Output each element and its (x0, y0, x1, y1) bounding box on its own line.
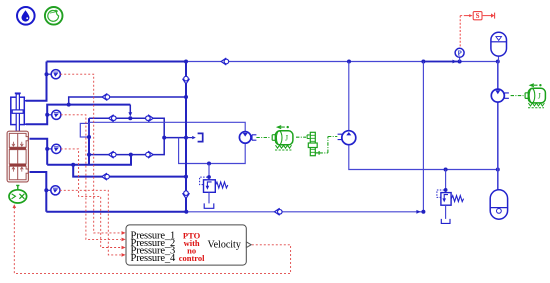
wire bottom line thin segment (186, 62, 423, 212)
node volume junction (87, 135, 91, 139)
node top bus junction x186 (184, 60, 188, 64)
accumulator bottom right (490, 190, 507, 219)
relief valve 1 (200, 164, 228, 209)
gear element (296, 132, 337, 155)
check valve C1 (109, 151, 117, 158)
svg-text:P: P (457, 49, 462, 57)
cylinder (11, 93, 27, 131)
directional valve block (7, 131, 28, 182)
node relief valve 2 tap (444, 168, 448, 172)
wire sensor2 stub (47, 114, 52, 116)
wire bottom line bold segment (46, 211, 186, 213)
node sensor4 junction (44, 188, 48, 192)
node top bus junction x423 (421, 60, 425, 64)
red input arrow 2 (122, 238, 126, 242)
accumulator top right (491, 32, 507, 61)
check valve on top bus (221, 58, 229, 65)
red input arrow 3 (122, 246, 126, 250)
inertia J2 (511, 84, 546, 108)
node top bus junction P sensor (458, 60, 462, 64)
check valve bottom line (275, 208, 283, 215)
svg-text:control: control (179, 253, 205, 263)
pump 3 (491, 89, 509, 102)
relief valve 2 (437, 170, 464, 224)
wire pump1 loop bottom (179, 138, 246, 164)
node CV-C row junction (129, 153, 133, 157)
wire pump3 vertical (497, 62, 499, 190)
pump 1 (239, 132, 256, 144)
wire arrow into CV-B row (128, 112, 132, 116)
wire valve port2 rail (30, 172, 47, 212)
node sensor2 junction (45, 113, 49, 117)
wire sensor1 stub (47, 73, 52, 75)
node H1 branch (71, 163, 75, 167)
PTO control text box (126, 225, 251, 265)
wire H1 (47, 155, 131, 165)
wire pump2 bottom to right (349, 145, 498, 170)
wire left rail from bus to cylinder top port (26, 62, 47, 101)
volume element rectangle (80, 123, 89, 137)
wire branch up to y97 row (69, 97, 186, 105)
wire left bridge rail (88, 118, 90, 165)
check valve main vertical lower (183, 191, 190, 199)
wire bridge mid row (164, 137, 186, 139)
check valve D (102, 173, 110, 180)
node top bus junction accumulator (496, 60, 500, 64)
red dashed feedback loop (14, 207, 290, 274)
P sensor (455, 48, 464, 61)
svg-text:J: J (285, 134, 288, 143)
pressure sensor 4 (51, 186, 60, 195)
wire sensor3 stub (47, 148, 52, 150)
wire sensor4 stub (46, 189, 51, 191)
check valve A (102, 94, 110, 101)
node rail CV-C junction (87, 153, 91, 157)
check valve B2 (146, 115, 154, 122)
environment icon (45, 7, 63, 25)
pump 2 (338, 131, 356, 145)
wire arrow on bus before P sensor (453, 60, 457, 64)
inertia J1 (256, 126, 293, 150)
svg-text:Pressure_4: Pressure_4 (131, 253, 176, 264)
node bridge mid left (162, 136, 166, 140)
wire top bus bold segment (47, 61, 187, 63)
red dashed sensor4 line (60, 190, 121, 255)
node sensor3 junction (45, 147, 49, 151)
wire arrow bottom line (416, 210, 420, 214)
node main vertical y97 (184, 95, 188, 99)
red input arrow 4 (122, 253, 126, 257)
red input arrow 1 (122, 231, 126, 235)
svg-text:S: S (476, 12, 480, 20)
red dashed sensor2 line (61, 115, 121, 240)
plugged port arrow (188, 133, 203, 141)
wire CV-D row (73, 165, 186, 177)
wire top bus thin segment (186, 61, 498, 63)
red dashed sensor3 line (61, 149, 121, 248)
pressure sensor 2 (52, 110, 61, 119)
wire CV-B row (89, 118, 164, 137)
node bottom line corner (421, 210, 425, 214)
red dashed S to P sensor (459, 16, 461, 48)
node CV-B row junction (128, 116, 132, 120)
node relief valve 1 tap (207, 162, 211, 166)
node branch y104 (67, 103, 71, 107)
red dashed sensor1 line (60, 74, 121, 233)
wire pump2 top drop (348, 62, 350, 131)
fluid icon (17, 7, 35, 25)
wire volume to pump1 top (89, 122, 245, 132)
node bridge mid right (184, 136, 188, 140)
wire main vertical (185, 62, 187, 212)
node CV-D row right (184, 175, 188, 179)
wire top bus medium segment (423, 61, 458, 63)
wire valve port1 rail (30, 139, 48, 165)
node sensor1 junction (45, 72, 49, 76)
signal S block (460, 12, 494, 21)
wire cylinder bottom port rail (26, 105, 130, 125)
svg-text:Velocity: Velocity (208, 240, 241, 251)
check valve B1 (109, 115, 117, 122)
pressure sensor 3 (52, 144, 61, 153)
node top bus junction x349 (347, 60, 351, 64)
check valve main vertical upper (183, 76, 190, 84)
node bottom line main vertical (184, 210, 188, 214)
wire drop from y104 to CV-B row with arrow (129, 105, 131, 114)
velocity source ellipse (9, 185, 27, 203)
red arrow into velocity source (13, 204, 17, 208)
check valve C2 (146, 151, 154, 158)
svg-text:J: J (538, 91, 541, 100)
node pump3 line junction (496, 168, 500, 172)
wire CV-C row (89, 138, 164, 155)
pressure sensor 1 (51, 70, 60, 79)
